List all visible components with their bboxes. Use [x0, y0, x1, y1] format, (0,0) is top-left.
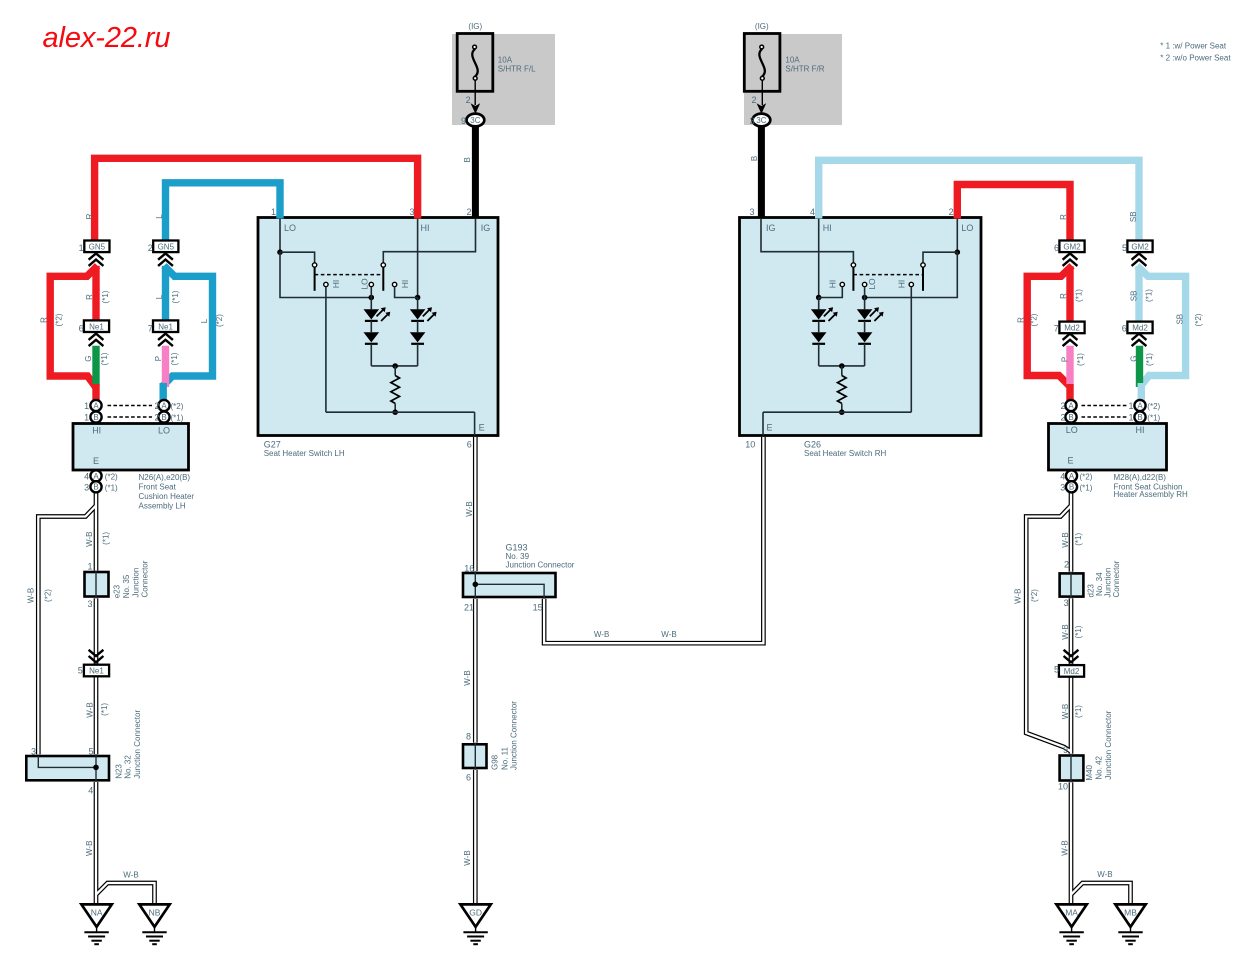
svg-text:Assembly LH: Assembly LH [139, 502, 186, 511]
svg-text:HI: HI [331, 280, 341, 289]
svg-text:4: 4 [810, 207, 815, 217]
svg-text:16: 16 [464, 564, 474, 574]
svg-text:GM2: GM2 [1131, 242, 1149, 251]
svg-text:(*1): (*1) [1145, 289, 1154, 302]
svg-text:(*1): (*1) [105, 484, 118, 493]
svg-text:L: L [155, 214, 164, 219]
svg-text:(*1): (*1) [171, 414, 184, 423]
svg-text:5: 5 [78, 666, 83, 676]
svg-text:Junction Connector: Junction Connector [133, 710, 142, 779]
svg-text:GN5: GN5 [89, 242, 106, 251]
svg-text:Md2: Md2 [1132, 324, 1148, 333]
svg-text:6: 6 [1054, 243, 1059, 253]
svg-text:W-B: W-B [123, 871, 138, 880]
svg-text:A: A [1137, 401, 1143, 410]
svg-text:(*1): (*1) [100, 703, 109, 716]
svg-text:1: 1 [84, 413, 89, 423]
svg-text:* 1 :w/ Power Seat: * 1 :w/ Power Seat [1160, 41, 1227, 50]
svg-text:M40: M40 [1085, 764, 1094, 780]
svg-text:W-B: W-B [463, 850, 472, 865]
svg-text:3C: 3C [756, 116, 766, 125]
svg-text:A: A [93, 472, 99, 481]
svg-text:No. 11: No. 11 [501, 746, 510, 770]
svg-text:4: 4 [84, 472, 89, 482]
svg-text:IG: IG [766, 223, 776, 233]
svg-text:NB: NB [149, 908, 161, 918]
svg-text:A: A [161, 401, 167, 410]
svg-text:2: 2 [1060, 413, 1065, 423]
svg-text:Connector: Connector [1112, 560, 1121, 597]
svg-text:(*2): (*2) [215, 314, 224, 327]
svg-text:5: 5 [1122, 243, 1127, 253]
svg-text:Ne1: Ne1 [89, 322, 104, 331]
svg-text:10A: 10A [498, 55, 513, 64]
svg-text:LO: LO [284, 223, 296, 233]
svg-text:Md2: Md2 [1064, 667, 1080, 676]
svg-text:A: A [93, 401, 99, 410]
svg-text:Junction Connector: Junction Connector [1104, 710, 1113, 779]
svg-text:6: 6 [466, 773, 471, 783]
svg-text:SB: SB [1130, 291, 1139, 302]
svg-text:Junction Connector: Junction Connector [506, 561, 575, 570]
svg-text:(*2): (*2) [105, 473, 118, 482]
svg-text:No. 32: No. 32 [124, 755, 133, 779]
svg-text:A: A [1069, 472, 1075, 481]
svg-text:M28(A),d22(B): M28(A),d22(B) [1114, 473, 1167, 482]
svg-text:Front Seat: Front Seat [139, 483, 177, 492]
svg-text:(*2): (*2) [44, 589, 53, 602]
svg-text:B: B [1137, 413, 1142, 422]
svg-text:10: 10 [745, 440, 755, 450]
svg-text:15: 15 [533, 603, 543, 613]
svg-text:10: 10 [1058, 782, 1068, 792]
svg-text:SB: SB [1129, 211, 1138, 222]
svg-text:HI: HI [1136, 425, 1145, 435]
svg-text:W-B: W-B [1013, 588, 1022, 603]
svg-text:(*2): (*2) [1030, 589, 1039, 602]
svg-text:MB: MB [1124, 908, 1137, 918]
svg-text:Seat Heater Switch LH: Seat Heater Switch LH [264, 449, 345, 458]
svg-text:E: E [767, 423, 773, 433]
svg-text:B: B [161, 413, 166, 422]
svg-text:3: 3 [84, 483, 89, 493]
svg-text:6: 6 [79, 323, 84, 333]
svg-text:W-B: W-B [594, 630, 609, 639]
svg-text:(IG): (IG) [755, 22, 769, 31]
svg-text:2: 2 [1060, 401, 1065, 411]
svg-text:LO: LO [1066, 425, 1078, 435]
svg-text:7: 7 [148, 323, 153, 333]
svg-text:(*1): (*1) [1075, 289, 1084, 302]
svg-text:HI: HI [823, 223, 832, 233]
svg-text:G98: G98 [491, 754, 500, 770]
svg-text:(*2): (*2) [1194, 313, 1203, 326]
svg-text:W-B: W-B [85, 841, 94, 856]
svg-text:No. 42: No. 42 [1095, 755, 1104, 779]
svg-text:7: 7 [1054, 323, 1059, 333]
svg-text:W-B: W-B [26, 588, 35, 603]
svg-text:N26(A),e20(B): N26(A),e20(B) [139, 473, 191, 482]
svg-text:E: E [1067, 456, 1073, 466]
svg-text:Heater Assembly RH: Heater Assembly RH [1114, 490, 1188, 499]
svg-text:3: 3 [87, 599, 92, 609]
svg-text:W-B: W-B [1061, 704, 1070, 719]
svg-text:e23: e23 [113, 584, 122, 598]
svg-text:HI: HI [400, 280, 410, 289]
svg-text:HI: HI [421, 223, 430, 233]
svg-text:S/HTR F/R: S/HTR F/R [785, 65, 824, 74]
svg-text:LO: LO [961, 223, 973, 233]
svg-text:Ne1: Ne1 [89, 667, 104, 676]
svg-text:B: B [1069, 483, 1074, 492]
svg-text:W-B: W-B [85, 702, 94, 717]
svg-text:3: 3 [750, 116, 755, 126]
svg-text:(*2): (*2) [1080, 473, 1093, 482]
svg-text:1: 1 [79, 243, 84, 253]
svg-text:B: B [750, 156, 759, 161]
svg-text:Cushion Heater: Cushion Heater [139, 492, 195, 501]
svg-text:(*1): (*1) [100, 352, 109, 365]
svg-text:W-B: W-B [1097, 870, 1112, 879]
svg-text:W-B: W-B [463, 670, 472, 685]
svg-text:G26: G26 [804, 440, 821, 450]
svg-text:2: 2 [466, 207, 471, 217]
svg-text:E: E [479, 423, 485, 433]
svg-text:(*1): (*1) [1080, 484, 1093, 493]
svg-text:Md2: Md2 [1064, 324, 1080, 333]
svg-text:(*1): (*1) [102, 532, 111, 545]
svg-text:S/HTR F/L: S/HTR F/L [498, 65, 536, 74]
svg-text:W-B: W-B [661, 630, 676, 639]
svg-text:4: 4 [88, 786, 93, 796]
svg-text:9: 9 [1063, 745, 1068, 755]
svg-text:Connector: Connector [141, 560, 150, 597]
svg-text:6: 6 [1122, 323, 1127, 333]
svg-text:R: R [1059, 214, 1068, 220]
svg-text:3: 3 [1060, 483, 1065, 493]
svg-text:(IG): (IG) [468, 22, 482, 31]
svg-text:1: 1 [1128, 401, 1133, 411]
svg-text:(*2): (*2) [1147, 402, 1160, 411]
svg-text:2: 2 [466, 95, 471, 105]
svg-text:Seat Heater Switch RH: Seat Heater Switch RH [804, 449, 886, 458]
svg-text:4: 4 [1060, 472, 1065, 482]
svg-text:R: R [85, 213, 94, 219]
svg-text:B: B [93, 413, 98, 422]
svg-text:W-B: W-B [1061, 840, 1070, 855]
svg-text:2: 2 [751, 95, 756, 105]
svg-text:LO: LO [158, 426, 170, 436]
svg-text:* 2 :w/o Power Seat: * 2 :w/o Power Seat [1160, 54, 1231, 63]
svg-text:B: B [1068, 413, 1073, 422]
svg-text:3C: 3C [470, 116, 480, 125]
svg-text:(*1): (*1) [171, 290, 180, 303]
svg-text:2: 2 [148, 243, 153, 253]
svg-text:R: R [40, 317, 49, 323]
svg-text:5: 5 [88, 746, 93, 756]
svg-text:GM2: GM2 [1063, 242, 1081, 251]
svg-text:R: R [85, 294, 94, 300]
svg-text:B: B [463, 157, 472, 162]
svg-text:G193: G193 [506, 543, 528, 553]
svg-text:alex-22.ru: alex-22.ru [43, 22, 171, 54]
svg-text:No. 35: No. 35 [122, 574, 131, 598]
svg-text:B: B [93, 483, 98, 492]
svg-text:1: 1 [1128, 413, 1133, 423]
svg-text:MA: MA [1065, 908, 1078, 918]
svg-text:(*1): (*1) [101, 290, 110, 303]
svg-text:10A: 10A [785, 55, 800, 64]
svg-text:L: L [155, 294, 164, 299]
svg-text:W-B: W-B [465, 501, 474, 516]
svg-text:IG: IG [481, 223, 491, 233]
svg-text:3: 3 [31, 746, 36, 756]
svg-text:3: 3 [409, 207, 414, 217]
svg-text:1: 1 [84, 401, 89, 411]
svg-text:1: 1 [271, 207, 276, 217]
svg-text:1: 1 [87, 562, 92, 572]
svg-text:(*1): (*1) [1074, 533, 1083, 546]
svg-text:L: L [200, 318, 209, 323]
svg-text:LO: LO [360, 278, 370, 290]
svg-text:W-B: W-B [1061, 624, 1070, 639]
svg-text:(*1): (*1) [1145, 353, 1154, 366]
svg-text:8: 8 [466, 732, 471, 742]
svg-text:E: E [93, 456, 99, 466]
svg-text:(*1): (*1) [170, 352, 179, 365]
svg-text:(*2): (*2) [1030, 313, 1039, 326]
svg-text:GN5: GN5 [158, 242, 175, 251]
svg-text:2: 2 [949, 207, 954, 217]
svg-text:HI: HI [897, 280, 907, 289]
svg-text:HI: HI [92, 426, 101, 436]
svg-text:G27: G27 [264, 440, 281, 450]
svg-text:R: R [1059, 293, 1068, 299]
svg-text:HI: HI [827, 280, 837, 289]
svg-text:2: 2 [154, 413, 159, 423]
svg-text:N23: N23 [115, 764, 124, 779]
svg-text:P: P [154, 356, 163, 361]
svg-text:P: P [1061, 357, 1070, 362]
svg-text:(*2): (*2) [55, 313, 64, 326]
svg-text:R: R [1017, 317, 1026, 323]
svg-text:21: 21 [464, 603, 474, 613]
svg-text:W-B: W-B [85, 531, 94, 546]
svg-text:(*1): (*1) [1074, 705, 1083, 718]
svg-text:9: 9 [461, 116, 466, 126]
svg-text:(*1): (*1) [1147, 414, 1160, 423]
svg-text:Junction Connector: Junction Connector [510, 701, 519, 770]
svg-text:Ne1: Ne1 [158, 322, 173, 331]
svg-text:SB: SB [1175, 314, 1184, 325]
svg-text:3: 3 [749, 207, 754, 217]
svg-text:3: 3 [1064, 598, 1069, 608]
svg-text:6: 6 [467, 440, 472, 450]
svg-text:5: 5 [1054, 664, 1059, 674]
svg-text:G: G [1130, 356, 1139, 362]
svg-text:Junction: Junction [131, 568, 140, 598]
svg-text:(*2): (*2) [171, 402, 184, 411]
svg-text:(*1): (*1) [1074, 625, 1083, 638]
svg-text:2: 2 [154, 401, 159, 411]
svg-text:NA: NA [91, 908, 103, 918]
svg-text:G: G [84, 355, 93, 361]
svg-text:(*1): (*1) [1076, 353, 1085, 366]
svg-text:GD: GD [469, 908, 482, 918]
svg-text:A: A [1068, 401, 1074, 410]
svg-text:W-B: W-B [1061, 532, 1070, 547]
svg-text:LO: LO [867, 278, 877, 290]
svg-text:2: 2 [1064, 560, 1069, 570]
